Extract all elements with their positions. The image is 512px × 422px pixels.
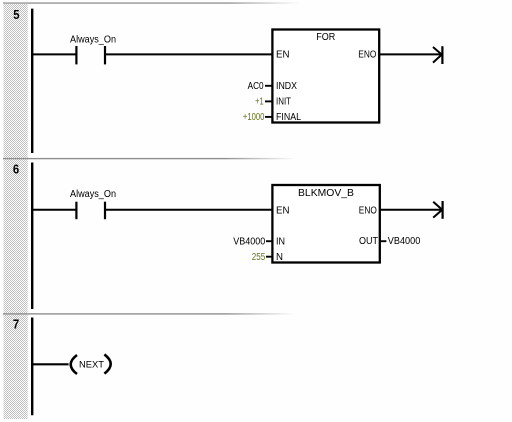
- svg-text:OUT: OUT: [359, 236, 378, 247]
- svg-text:5: 5: [13, 7, 19, 22]
- stub OUT: [380, 240, 386, 242]
- wire: BLKMOV_B ENO output: [380, 209, 442, 211]
- separator line top (network 5 header): [3, 2, 300, 3]
- svg-text:BLKMOV_B: BLKMOV_B: [298, 188, 354, 199]
- svg-text:255: 255: [252, 252, 266, 263]
- left power rail network 5: [31, 9, 33, 153]
- svg-text:FOR: FOR: [316, 32, 335, 43]
- wire: contact to FOR box EN: [105, 53, 272, 55]
- svg-text:ENO: ENO: [358, 50, 376, 61]
- wire: FOR ENO output: [379, 53, 442, 55]
- arrow continuation network 6: [433, 201, 442, 219]
- stub FINAL: [265, 116, 272, 118]
- svg-text:INIT: INIT: [276, 97, 291, 108]
- separator line between network 6 and 7: [3, 313, 295, 314]
- svg-text:+1000: +1000: [243, 112, 265, 123]
- left power rail network 7: [31, 318, 33, 416]
- coil NEXT left parenthesis: [71, 355, 77, 374]
- wire: contact to BLKMOV_B box EN: [105, 209, 272, 211]
- stub N: [266, 256, 272, 258]
- svg-text:VB4000: VB4000: [388, 236, 421, 247]
- svg-text:NEXT: NEXT: [79, 359, 104, 370]
- function box FOR: [272, 30, 379, 123]
- svg-text:AC0: AC0: [248, 81, 264, 92]
- contact Always_On network 6: [76, 202, 105, 220]
- svg-text:EN: EN: [276, 206, 290, 217]
- svg-text:FINAL: FINAL: [276, 112, 301, 123]
- wire: rail to NEXT coil: [31, 363, 69, 365]
- wire: rail to contact, network 6: [31, 209, 76, 211]
- wire: rail to contact, network 5: [31, 53, 76, 55]
- function box BLKMOV_B: [272, 185, 379, 263]
- svg-text:+1: +1: [255, 97, 264, 108]
- svg-text:N: N: [276, 252, 283, 263]
- stub IN: [266, 240, 272, 242]
- coil NEXT right parenthesis: [104, 354, 110, 373]
- left power rail network 6: [31, 163, 33, 310]
- svg-text:INDX: INDX: [276, 81, 297, 92]
- svg-text:7: 7: [13, 316, 19, 331]
- svg-text:VB4000: VB4000: [233, 236, 265, 247]
- svg-text:IN: IN: [276, 236, 285, 247]
- network gutter (dithered strip): [4, 4, 28, 419]
- svg-text:Always_On: Always_On: [70, 189, 116, 200]
- svg-text:EN: EN: [276, 50, 290, 61]
- stub INIT: [265, 100, 272, 102]
- arrow continuation network 5: [433, 46, 442, 64]
- svg-text:6: 6: [13, 161, 19, 176]
- svg-text:ENO: ENO: [359, 206, 377, 217]
- contact Always_On network 5: [76, 46, 105, 64]
- svg-text:Always_On: Always_On: [70, 35, 116, 46]
- stub INDX: [265, 85, 272, 87]
- separator line between network 5 and 6: [3, 158, 295, 159]
